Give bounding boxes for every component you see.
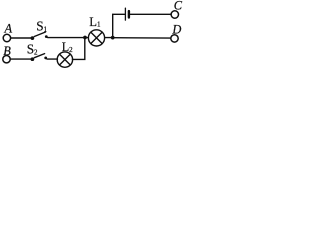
lamp L1 — [88, 30, 104, 46]
svg-text:L1: L1 — [89, 15, 101, 29]
svg-text:L2: L2 — [62, 40, 73, 54]
svg-text:S1: S1 — [36, 18, 47, 33]
wire L1 to junction J2 — [105, 37, 113, 39]
wire A to S1 — [11, 37, 31, 39]
wire riser J2 to battery row — [112, 14, 114, 37]
svg-text:S2: S2 — [27, 42, 38, 57]
wire battery to C — [130, 13, 171, 15]
battery cell — [125, 8, 128, 20]
wire J2 to D — [113, 37, 171, 39]
junction J2 — [111, 36, 115, 40]
svg-text:D: D — [171, 22, 181, 36]
wire riser top to battery — [113, 13, 125, 15]
wire S2 to L2 — [47, 58, 57, 60]
lamp L2 — [57, 52, 72, 67]
wire L2 to corner riser up to J1 — [72, 38, 84, 60]
svg-text:C: C — [174, 0, 183, 12]
switch S1 — [31, 32, 48, 40]
wire B to S2 — [11, 58, 31, 60]
svg-text:A: A — [4, 22, 13, 36]
svg-text:B: B — [3, 44, 11, 58]
terminal B — [3, 56, 10, 63]
switch S2 — [31, 54, 48, 61]
wire S1 to junction J1 — [48, 37, 88, 39]
terminal D — [171, 35, 178, 42]
junction J1 — [83, 36, 87, 40]
terminal A — [3, 34, 10, 41]
terminal C — [171, 11, 178, 18]
